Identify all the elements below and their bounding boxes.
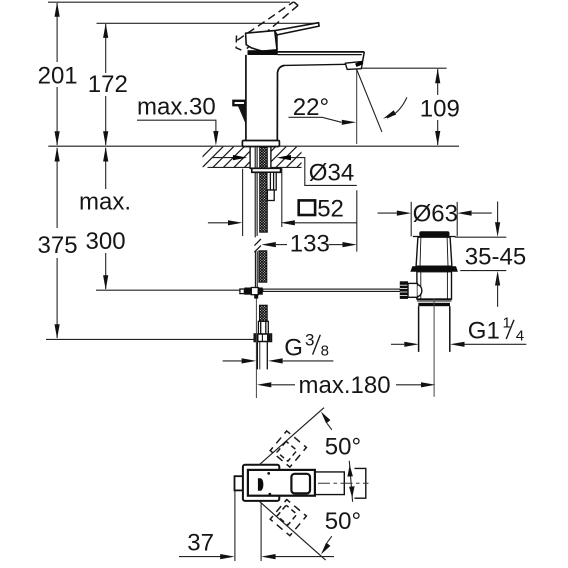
extension line 375 bottom <box>46 338 255 340</box>
G3/8 nut <box>254 334 271 342</box>
drain lower body <box>417 272 452 299</box>
svg-text:8: 8 <box>321 343 329 360</box>
extension line 109 top <box>362 67 447 69</box>
label 201 <box>38 62 78 89</box>
svg-text:35-45: 35-45 <box>465 244 526 271</box>
hose break marks <box>254 239 261 252</box>
dimension 201 line <box>56 3 58 145</box>
dimension G3/8 arrows <box>223 358 334 363</box>
dimension Ø63 <box>378 202 492 237</box>
svg-text:max.180: max.180 <box>299 372 391 399</box>
shank through countertop <box>250 147 271 169</box>
svg-text:max.: max. <box>79 189 131 216</box>
svg-text:109: 109 <box>420 95 460 122</box>
pop-up horizontal rod <box>263 289 401 291</box>
label 109 <box>420 95 460 122</box>
water stream angle arc arrow <box>383 97 407 118</box>
svg-text:133: 133 <box>290 231 330 258</box>
pull rod lower part <box>255 251 257 287</box>
dimension max.300 arrows <box>103 147 108 290</box>
extension line spout reach <box>356 190 358 251</box>
extension line max.300 bottom <box>96 289 242 291</box>
braided hose lower section <box>260 305 268 321</box>
faucet lever raised (dashed) <box>236 2 298 52</box>
dimension 172 arrows <box>103 23 108 146</box>
svg-text:3: 3 <box>305 330 314 349</box>
pop-up knob on body <box>233 101 245 124</box>
dimension square52 arrows <box>208 220 357 225</box>
top view: aerator square <box>291 474 310 494</box>
label 37 <box>187 530 214 557</box>
label square 52 <box>299 196 344 223</box>
dimension 109 line <box>437 69 439 145</box>
svg-text:52: 52 <box>317 196 344 223</box>
faucet body column <box>246 55 285 141</box>
mounting nut <box>267 172 276 200</box>
dimension 172 line <box>105 24 107 145</box>
faucet base plate <box>242 141 279 147</box>
extension line top (lever raised height ref) <box>48 1 290 3</box>
svg-text:Ø34: Ø34 <box>309 159 354 186</box>
top view: spout continuation <box>315 472 344 495</box>
hose end fitting <box>258 321 268 334</box>
top view: lever rear tip <box>235 476 246 490</box>
drain center line <box>433 299 435 397</box>
drain upper body <box>416 237 452 266</box>
svg-text:50°: 50° <box>325 434 361 461</box>
label G3/8 <box>284 330 329 361</box>
dimension G1 1/4 <box>391 342 526 347</box>
braided hose middle section <box>259 251 267 282</box>
water stream 22deg line <box>357 70 382 132</box>
countertop hatching <box>192 147 318 168</box>
top view: lever/spout block <box>248 470 315 496</box>
dimension 375 arrows <box>55 147 60 339</box>
label 22deg with leader <box>289 94 357 125</box>
top view: screw dots <box>267 472 271 496</box>
svg-text:50°: 50° <box>325 508 361 535</box>
pull rod <box>255 148 257 238</box>
svg-text:4: 4 <box>516 328 524 345</box>
svg-text:G: G <box>284 335 303 362</box>
top view: body square <box>243 465 279 501</box>
svg-text:max.30: max.30 <box>137 93 216 120</box>
top view: lower 50deg lever line <box>259 501 332 560</box>
top view: swivel angle chord line <box>347 461 354 502</box>
drain joint rings <box>417 299 452 306</box>
braided hose upper section <box>260 148 268 233</box>
top view: center line <box>318 482 369 484</box>
label G1 1/4 <box>468 315 524 345</box>
label 172 <box>88 71 128 98</box>
faucet lever handle (solid) <box>246 23 320 52</box>
drain tailpipe <box>419 306 450 352</box>
drain flange <box>410 266 458 272</box>
top view: spout tip bracket <box>355 468 366 498</box>
dimension 37 <box>179 491 334 561</box>
rod linkage joint <box>240 288 263 299</box>
label max.300 <box>79 189 131 255</box>
G3/8 thread tube <box>257 342 267 370</box>
dimension 35-45 <box>455 202 506 307</box>
faucet spout arm <box>278 52 365 66</box>
extension lines body width <box>243 168 282 236</box>
countertop surface line <box>48 145 459 147</box>
dimension 201 arrows <box>55 2 60 146</box>
dimension 375 line <box>56 148 58 338</box>
extension line faucet axis lower <box>255 299 257 398</box>
countertop underside line <box>208 166 302 168</box>
label 50deg lower <box>325 508 361 535</box>
top view: upper 50deg lever line <box>259 408 332 465</box>
svg-text:375: 375 <box>38 232 78 259</box>
svg-text:172: 172 <box>88 71 128 98</box>
svg-text:300: 300 <box>86 228 126 255</box>
svg-text:Ø63: Ø63 <box>413 200 458 227</box>
top view: lower dashed squares <box>270 499 306 535</box>
label max.30 with leader <box>137 93 219 145</box>
dimension max.180 <box>257 382 436 387</box>
water stream vertical reference <box>356 70 358 145</box>
extension line spout height ref <box>97 22 319 24</box>
label 375 <box>38 232 78 259</box>
drain pop-up cap <box>413 231 456 236</box>
label 35-45 <box>465 244 526 271</box>
svg-text:G1: G1 <box>468 317 500 344</box>
top view: lever pivot mark <box>258 478 263 491</box>
dimension 109 arrows <box>435 69 440 146</box>
faucet aerator <box>345 61 362 69</box>
label Ø34 with leader <box>213 155 357 186</box>
mounting washer <box>252 168 281 172</box>
label 50deg upper <box>325 434 361 461</box>
label max.180 <box>299 372 391 399</box>
svg-text:201: 201 <box>38 62 78 89</box>
label Ø63 <box>413 200 458 227</box>
svg-text:37: 37 <box>187 530 214 557</box>
dimension 133 <box>261 231 357 258</box>
dimension max.300 line <box>105 148 107 289</box>
drain click knob <box>400 281 422 299</box>
top view: upper dashed squares <box>270 431 306 467</box>
faucet body top collar (dark) <box>248 50 278 55</box>
